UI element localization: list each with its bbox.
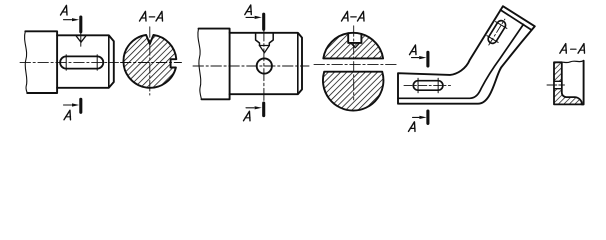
- tangent tick right of horizontal slot: [437, 78, 439, 93]
- label A bottom fig3: [409, 122, 416, 132]
- centerline tick through web slot: [547, 84, 565, 86]
- horizontal centerline of section 2: [314, 64, 397, 66]
- inner edge line of bracket end: [500, 10, 531, 30]
- blind hole right wall: [269, 33, 273, 46]
- blind hole bottom line: [260, 45, 270, 47]
- centerline axis of shaft: [20, 61, 119, 63]
- vertical centerline of section 1: [149, 27, 151, 95]
- small cylinder with chamfered end: [230, 33, 302, 94]
- wire: break (wavy) line left edge: [198, 29, 202, 100]
- center-drill V mark on top of shaft: [76, 36, 86, 43]
- wire: wavy break line top of section 3: [562, 61, 584, 63]
- cutting plane thick stroke top: [79, 17, 82, 32]
- centerline axis of shaft 2: [193, 65, 309, 67]
- label A top fig3: [410, 45, 417, 55]
- slot gap lower line: [554, 88, 562, 90]
- cutting plane thick stroke top: [262, 14, 265, 29]
- section body: hatched circle with V notch and keyway notch: [123, 35, 176, 88]
- arrow top fig3: [412, 57, 419, 59]
- wire: vertical trace of cutting plane: [263, 29, 265, 102]
- drill cone lines in section notch: [351, 43, 360, 48]
- rim arc over the notch: [348, 33, 361, 34]
- slot in inclined arm (stadium): [488, 21, 505, 44]
- keyseat tangent line left: [65, 55, 67, 71]
- blind hole left wall: [256, 33, 260, 46]
- large cylinder of shaft (front view): [25, 31, 57, 93]
- tangent tick lower end of inclined slot: [487, 36, 498, 43]
- hatched L-shaped cut area: [554, 62, 582, 104]
- centerline of inclined slot: [489, 19, 505, 45]
- cutting plane thick stroke bottom: [262, 103, 265, 116]
- label A-A of section 2: [342, 11, 365, 21]
- section lower cap: hatched: [323, 72, 384, 111]
- arrow of view direction bottom: [64, 104, 72, 106]
- web bend line: [398, 24, 523, 98]
- right edge and bottom corner of section outline: [582, 61, 584, 105]
- blind hole drill cone: [260, 46, 270, 53]
- cutting plane thick stroke bottom fig3: [426, 111, 429, 123]
- label A bottom: [64, 110, 71, 120]
- chamfer edge line: [108, 35, 110, 88]
- label A bottom fig2: [244, 111, 251, 121]
- through hole circle: [257, 58, 272, 73]
- slot gap upper line: [554, 80, 562, 82]
- arrow of view direction top: [64, 19, 72, 21]
- tangent tick upper end of inclined slot: [496, 22, 507, 29]
- centerline of horizontal slot: [404, 84, 451, 86]
- vertical centerline of section 2: [353, 26, 355, 100]
- label A top: [61, 5, 68, 15]
- arrow bottom fig2: [246, 107, 254, 109]
- section upper cap: hatched with blind hole notch: [323, 33, 383, 58]
- wire: break (wavy) line left edge of large cylinder: [25, 31, 28, 93]
- cutting plane thick stroke top fig3: [426, 52, 429, 66]
- label A-A of section 1: [140, 11, 163, 21]
- label A top fig2: [245, 5, 252, 15]
- cutting plane thick stroke bottom: [79, 99, 82, 112]
- tangent tick left of horizontal slot: [417, 78, 419, 93]
- chamfer edge line: [297, 33, 299, 94]
- large cylinder front view: [199, 29, 230, 100]
- keyseat slot (stadium): [60, 56, 103, 68]
- arrow top fig2: [246, 16, 254, 18]
- arrow bottom fig3: [413, 116, 420, 118]
- label A-A of section 3: [560, 44, 585, 54]
- wire: thin trace of cutting plane top: [80, 31, 82, 46]
- slot in horizontal arm (stadium): [413, 81, 443, 91]
- bracket outline: [398, 6, 535, 104]
- small cylinder with chamfered end: [57, 35, 114, 88]
- slot gap in web: [555, 81, 561, 88]
- horizontal centerline of section 1: [121, 62, 182, 64]
- keyseat tangent line right: [96, 55, 98, 71]
